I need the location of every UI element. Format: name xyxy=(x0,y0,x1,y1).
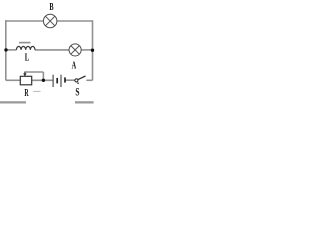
svg-text:A: A xyxy=(72,59,77,71)
svg-text:B: B xyxy=(49,1,54,12)
svg-text:L: L xyxy=(25,51,30,63)
svg-text:R: R xyxy=(24,86,29,98)
svg-text:S: S xyxy=(75,86,79,99)
